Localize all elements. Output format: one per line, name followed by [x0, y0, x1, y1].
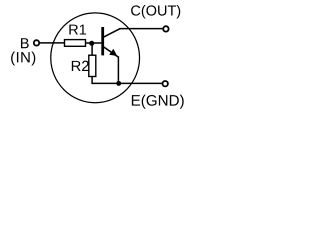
label R1: [69, 25, 86, 35]
resistor R1: [65, 40, 86, 47]
transistor Q1 base bar: [101, 27, 104, 55]
wire B terminal to R1: [40, 42, 65, 44]
transistor Q1 collector diagonal: [104, 29, 121, 37]
label R2: [72, 61, 89, 71]
wire R1 to base bar: [85, 42, 101, 44]
transistor Q1 emitter arrow: [109, 49, 117, 56]
wire emitter rail to E terminal: [91, 82, 161, 84]
label E(GND): [132, 95, 184, 109]
transistor Q1 emitter diagonal: [104, 47, 119, 57]
wire node to R2 top: [91, 43, 93, 56]
transistor package circle: [51, 13, 140, 103]
resistor R2: [89, 55, 96, 76]
wire collector horizontal to C terminal: [120, 28, 163, 30]
wire R2 bottom to ground rail: [91, 76, 93, 83]
terminal C: [163, 26, 168, 31]
node base junction: [89, 41, 94, 46]
node emitter junction: [116, 81, 121, 86]
label (IN): [11, 52, 35, 66]
terminal E: [163, 81, 168, 86]
wire emitter vertical: [117, 57, 119, 84]
label C(OUT): [131, 5, 180, 19]
label B: [21, 38, 29, 48]
terminal B: [34, 40, 39, 45]
